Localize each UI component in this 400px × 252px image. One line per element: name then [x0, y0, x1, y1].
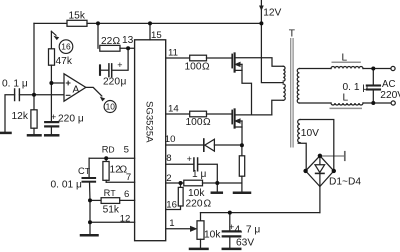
- svg-text:SG3525A: SG3525A: [144, 101, 155, 143]
- svg-text:+: +: [229, 222, 234, 232]
- svg-text:10k: 10k: [204, 230, 221, 241]
- svg-text:16: 16: [166, 200, 177, 211]
- svg-text:100: 100: [185, 62, 202, 73]
- svg-text:22: 22: [101, 36, 113, 47]
- svg-text:51k: 51k: [103, 205, 120, 216]
- svg-text:Ω: Ω: [113, 36, 121, 47]
- svg-text:47k: 47k: [56, 56, 73, 67]
- svg-text:L: L: [343, 93, 349, 104]
- svg-text:+: +: [117, 60, 122, 70]
- svg-text:220 μ: 220 μ: [58, 114, 84, 125]
- svg-text:CT: CT: [78, 166, 91, 176]
- svg-text:+: +: [51, 112, 56, 122]
- svg-text:μ: μ: [121, 77, 127, 88]
- svg-text:Ω: Ω: [203, 117, 211, 128]
- svg-text:220: 220: [103, 77, 120, 88]
- svg-text:Ω: Ω: [202, 62, 210, 73]
- svg-text:11: 11: [168, 48, 178, 59]
- svg-text:10: 10: [106, 102, 116, 112]
- svg-text:D1~D4: D1~D4: [329, 177, 361, 188]
- svg-text:10k: 10k: [188, 188, 205, 199]
- svg-text:10: 10: [165, 134, 176, 145]
- svg-text:8: 8: [166, 153, 171, 164]
- svg-text:1: 1: [169, 218, 174, 229]
- svg-text:+: +: [187, 154, 192, 164]
- svg-text:15k: 15k: [69, 11, 86, 22]
- svg-text:12V: 12V: [263, 8, 281, 19]
- svg-text:2: 2: [166, 173, 171, 184]
- svg-text:100: 100: [186, 117, 203, 128]
- svg-text:0. 01 μ: 0. 01 μ: [51, 179, 82, 190]
- svg-text:RD: RD: [102, 145, 115, 155]
- svg-text:L: L: [342, 53, 348, 64]
- svg-text:12k: 12k: [12, 111, 29, 122]
- svg-text:4. 7 μ: 4. 7 μ: [235, 225, 261, 236]
- svg-text:10V: 10V: [301, 128, 319, 139]
- svg-text:A: A: [73, 85, 80, 96]
- svg-text:12: 12: [120, 214, 131, 225]
- svg-text:AC: AC: [382, 79, 395, 90]
- svg-text:0. 1 μ: 0. 1 μ: [343, 82, 369, 93]
- svg-text:14: 14: [168, 104, 179, 115]
- svg-text:Ω: Ω: [204, 199, 212, 210]
- svg-text:220V: 220V: [380, 90, 400, 101]
- svg-text:16: 16: [61, 42, 71, 52]
- svg-text:RT: RT: [104, 188, 117, 198]
- svg-text:T: T: [289, 28, 295, 39]
- svg-text:1 μ: 1 μ: [192, 169, 206, 180]
- svg-text:6: 6: [124, 189, 129, 200]
- svg-text:63V: 63V: [236, 238, 254, 249]
- svg-text:15: 15: [151, 30, 162, 41]
- svg-text:0. 1 μ: 0. 1 μ: [2, 79, 28, 90]
- svg-text:13: 13: [122, 35, 134, 46]
- svg-text:220: 220: [186, 199, 203, 210]
- svg-text:5: 5: [124, 145, 129, 156]
- svg-text:7: 7: [126, 172, 131, 183]
